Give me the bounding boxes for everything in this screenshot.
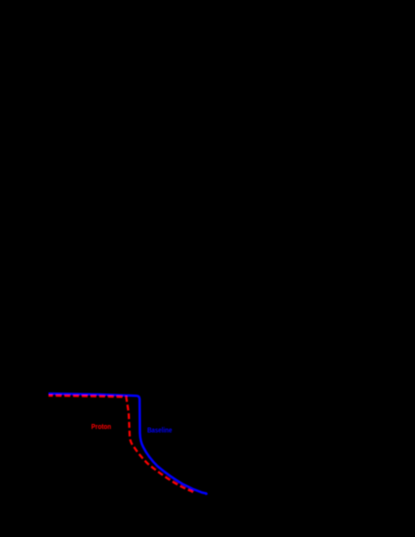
wire: proton curve (red dashed) [49,396,195,493]
wire: baseline curve (blue solid) [49,394,207,495]
svg-text:Proton: Proton [91,424,111,431]
svg-text:Baseline: Baseline [147,427,172,434]
